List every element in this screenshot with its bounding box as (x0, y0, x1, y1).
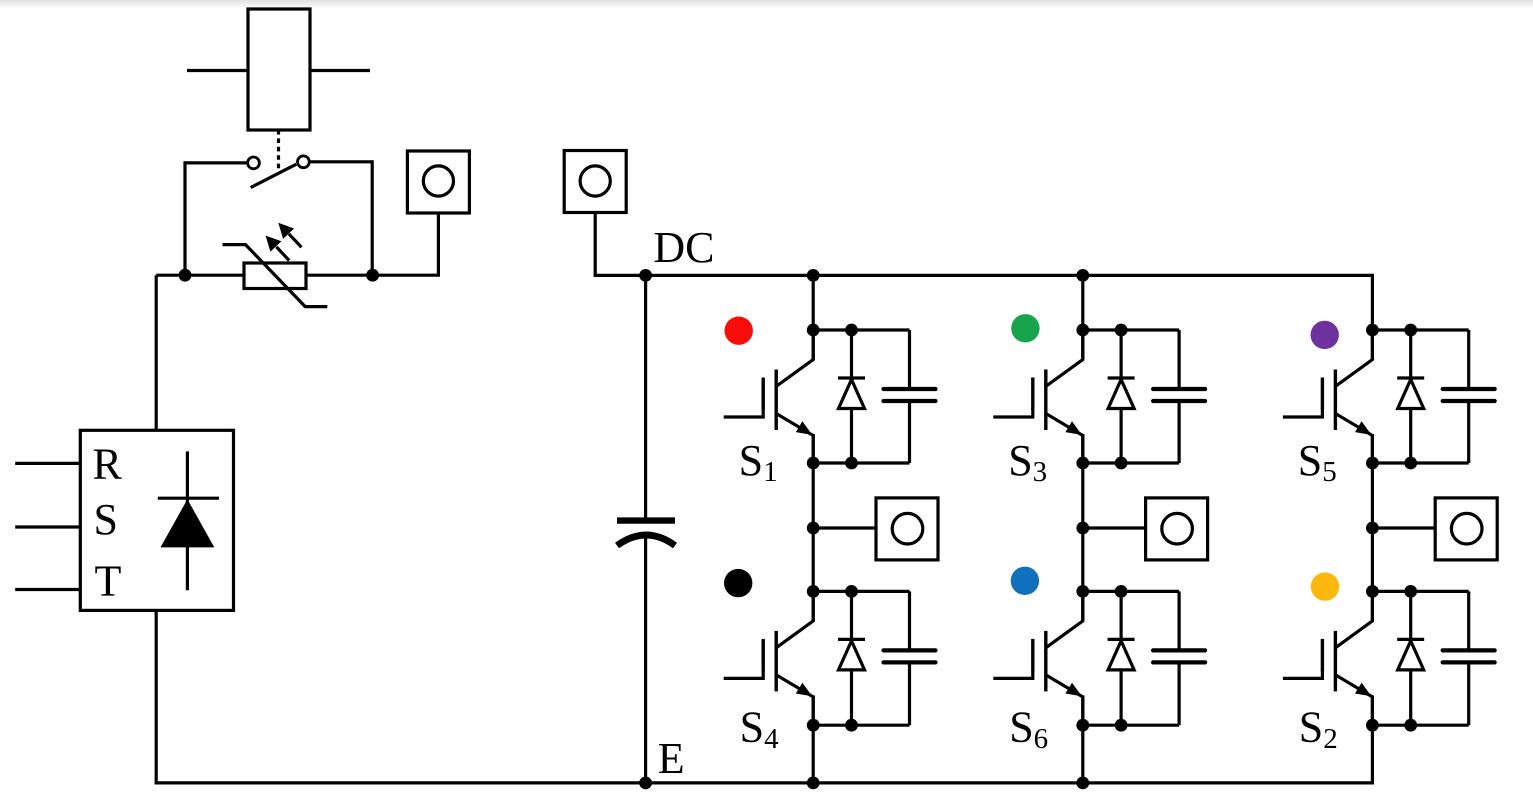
terminal/sensor T2 box (564, 151, 626, 213)
diode D6 triangle (1108, 641, 1134, 670)
snubber cap C5 plates (1443, 387, 1495, 391)
diode D2 triangle (1398, 641, 1424, 670)
junction bottom bus / C-link (639, 777, 652, 790)
free-wheel diode D1 lead (850, 330, 853, 463)
input line R (15, 462, 80, 465)
switch blade (251, 164, 297, 187)
wire terminal T2 to DC bus (594, 213, 597, 278)
IGBT S2 gate bar (1321, 639, 1324, 671)
snubber cap C3 top lead (1177, 330, 1180, 389)
svg-text:R: R (93, 439, 123, 488)
wire left branch down (183, 161, 186, 275)
snubber cap C5 top lead (1467, 330, 1470, 389)
junction DC bus / leg1 (807, 269, 820, 282)
S4 cell top rail (813, 590, 909, 593)
junction S5 cell bottom diode (1404, 457, 1417, 470)
IGBT S3 emitter arrowhead (1065, 421, 1081, 435)
diode D3 cathode bar (1108, 376, 1135, 379)
wire varistor to terminal T1 branch (306, 274, 440, 277)
output terminal U2 box (1146, 498, 1208, 560)
IGBT S1 gate lead (724, 408, 764, 417)
snubber cap C2 top lead (1467, 591, 1470, 650)
junction S3 cell top diode (1115, 324, 1128, 337)
rectifier bridge block (80, 430, 233, 610)
junction phase node leg3 (1366, 522, 1379, 535)
junction S2 cell bottom-left (1366, 719, 1379, 732)
wire rectifier to bottom bus (155, 610, 158, 784)
wire switch-right to right branch (309, 160, 372, 163)
IGBT S2 body bar (1334, 631, 1337, 692)
junction phase node leg1 (807, 522, 820, 535)
junction S1 cell bottom-left (807, 457, 820, 470)
junction S3 cell bottom-left (1076, 457, 1089, 470)
wire right branch down (371, 160, 374, 275)
rectifier diode lead (186, 451, 189, 590)
output terminal U3 box (1435, 498, 1497, 560)
free-wheel diode D5 lead (1409, 330, 1412, 463)
junction S6 cell bottom-left (1076, 719, 1089, 732)
switch contact right (298, 156, 310, 168)
IGBT S6 collector lead (1046, 591, 1083, 647)
junction DC bus / C-link (639, 269, 652, 282)
snubber cap C6 plates (1153, 648, 1205, 652)
DC-link capacitor plates (617, 517, 675, 523)
wire DC bus to capacitor C-link (644, 275, 647, 517)
leg2 middle vertical (1081, 434, 1084, 621)
varistor diagonal strike (223, 245, 328, 307)
output terminal U3 circle (1451, 513, 1482, 544)
yellow marker S2 (1311, 572, 1339, 600)
arrow (lower) head (266, 236, 282, 252)
snubber cap C1 plates (884, 387, 936, 391)
IGBT S4 gate lead (724, 669, 764, 678)
snubber cap C3 bottom lead (1177, 401, 1180, 463)
blue marker S6 (1011, 567, 1039, 595)
IGBT S4 gate bar (762, 639, 765, 671)
input line T (15, 588, 80, 591)
S6 cell bottom rail (1083, 724, 1179, 727)
phase wire leg1 (813, 526, 876, 529)
mechanical link (dashed) coil to contact (277, 130, 280, 172)
junction bottom bus / leg2 (1076, 777, 1089, 790)
red marker S1 (725, 317, 753, 345)
junction S6 cell bottom diode (1115, 719, 1128, 732)
phase wire leg2 (1083, 526, 1146, 529)
DC-link capacitor curved plate (617, 535, 675, 546)
S3 cell top rail (1083, 328, 1179, 331)
wire switch-left to left branch (185, 161, 248, 164)
leg1 middle vertical (812, 434, 815, 621)
IGBT S2 emitter lead (1335, 675, 1372, 725)
IGBT S6 gate bar (1031, 639, 1034, 671)
svg-text:E: E (658, 734, 685, 783)
diode D6 cathode bar (1108, 638, 1135, 641)
leg2 upper vertical (1081, 275, 1084, 359)
snubber cap C4 plates (884, 648, 936, 652)
junction right node (366, 269, 379, 282)
snubber cap C2 bottom lead (1467, 662, 1470, 725)
junction left node (179, 269, 192, 282)
svg-text:S1: S1 (739, 436, 778, 488)
IGBT S1 body bar (775, 370, 778, 431)
terminal/sensor T1 box (407, 151, 469, 213)
diode D1 cathode bar (838, 376, 865, 379)
IGBT S5 gate lead (1283, 408, 1323, 417)
rectifier diode cathode bar (158, 497, 219, 500)
wire up to terminal T1 (437, 213, 440, 275)
arrow (lower) shaft (276, 247, 289, 261)
terminal T2 circle (580, 166, 610, 196)
svg-text:S5: S5 (1298, 436, 1337, 488)
svg-text:S6: S6 (1009, 703, 1048, 755)
IGBT S2 gate lead (1283, 669, 1323, 678)
junction S4 cell bottom-left (807, 719, 820, 732)
leg2 lower vertical (1081, 695, 1084, 783)
arrow (upper) head (278, 223, 294, 239)
S2 cell top rail (1372, 590, 1468, 593)
coil right lead (310, 69, 370, 72)
snubber cap C1 top lead (908, 330, 911, 389)
black marker S4 (724, 569, 752, 597)
junction S2 cell top diode (1404, 585, 1417, 598)
snubber cap C4 bottom lead (908, 662, 911, 725)
diode D4 cathode bar (838, 638, 865, 641)
IGBT S5 emitter lead (1335, 414, 1372, 464)
IGBT S2 collector lead (1336, 591, 1373, 647)
negative bus E (155, 781, 1373, 784)
leg3 middle vertical (1371, 434, 1374, 621)
terminal T1 circle (423, 166, 453, 196)
IGBT S3 gate bar (1031, 378, 1034, 410)
snubber cap C4 top lead (908, 591, 911, 650)
IGBT S5 collector lead (1336, 330, 1373, 386)
IGBT S1 emitter arrowhead (796, 421, 812, 435)
junction S6 cell top-left (1076, 585, 1089, 598)
IGBT S4 collector lead (777, 591, 814, 647)
S1 cell bottom rail (813, 461, 909, 464)
junction S6 cell top diode (1115, 585, 1128, 598)
S1 cell top rail (813, 328, 909, 331)
IGBT S6 emitter lead (1046, 675, 1083, 725)
phase wire leg3 (1372, 526, 1435, 529)
varistor/thermistor RV1 body (244, 263, 306, 289)
IGBT S5 emitter arrowhead (1355, 421, 1371, 435)
S3 cell bottom rail (1083, 461, 1179, 464)
S4 cell bottom rail (813, 724, 909, 727)
IGBT S2 emitter arrowhead (1355, 683, 1371, 697)
contactor coil K1 (248, 9, 310, 130)
IGBT S6 gate lead (993, 669, 1033, 678)
snubber cap C2 plates (1443, 648, 1495, 652)
leg3 lower vertical (1371, 695, 1374, 784)
S2 cell bottom rail (1372, 724, 1468, 727)
junction bottom bus / leg1 (807, 777, 820, 790)
IGBT S1 gate bar (762, 378, 765, 410)
snubber cap C5 bottom lead (1467, 401, 1470, 463)
free-wheel diode D3 lead (1119, 330, 1122, 463)
IGBT S5 body bar (1334, 370, 1337, 431)
wire bottom-left to varistor (156, 274, 244, 277)
IGBT S3 body bar (1044, 370, 1047, 431)
diode D1 triangle (839, 380, 865, 409)
snubber cap C6 top lead (1177, 591, 1180, 650)
IGBT S4 body bar (775, 631, 778, 692)
junction S5 cell bottom-left (1366, 457, 1379, 470)
diode D3 triangle (1108, 380, 1134, 409)
free-wheel diode D2 lead (1409, 591, 1412, 725)
junction DC bus / leg2 (1076, 269, 1089, 282)
junction S4 cell top diode (845, 585, 858, 598)
IGBT S4 emitter arrowhead (796, 683, 812, 697)
svg-text:T: T (95, 556, 122, 605)
leg1 upper vertical (812, 275, 815, 359)
output terminal U1 box (876, 498, 938, 560)
arrow (upper) shaft (289, 234, 302, 247)
svg-text:S4: S4 (740, 703, 779, 755)
junction S4 cell bottom diode (845, 719, 858, 732)
IGBT S6 emitter arrowhead (1065, 683, 1081, 697)
junction phase node leg2 (1076, 522, 1089, 535)
snubber cap C3 plates (1153, 387, 1205, 391)
IGBT S3 emitter lead (1046, 414, 1083, 464)
free-wheel diode D6 lead (1119, 591, 1122, 725)
diode D5 cathode bar (1397, 376, 1424, 379)
wire capacitor C-link to bottom bus (644, 538, 647, 783)
junction S1 cell top diode (845, 324, 858, 337)
svg-text:DC: DC (653, 223, 714, 272)
S6 cell top rail (1083, 590, 1179, 593)
green marker S3 (1011, 314, 1039, 342)
DC+ bus (595, 274, 1372, 277)
junction S3 cell top-left (1076, 324, 1089, 337)
rectifier diode triangle (161, 499, 215, 547)
junction S1 cell top-left (807, 324, 820, 337)
junction S3 cell bottom diode (1115, 457, 1128, 470)
svg-text:S: S (94, 495, 118, 544)
input line S (15, 525, 80, 528)
junction S4 cell top-left (807, 585, 820, 598)
junction S5 cell top-left (1366, 324, 1379, 337)
IGBT S3 collector lead (1046, 330, 1083, 386)
free-wheel diode D4 lead (850, 591, 853, 725)
junction S5 cell top diode (1404, 324, 1417, 337)
IGBT S5 gate bar (1321, 378, 1324, 410)
IGBT S1 emitter lead (776, 414, 813, 464)
diode D2 cathode bar (1397, 638, 1424, 641)
leg1 lower vertical (812, 695, 815, 783)
IGBT S1 collector lead (777, 330, 814, 386)
svg-text:S3: S3 (1008, 436, 1047, 488)
IGBT S4 emitter lead (776, 675, 813, 725)
snubber cap C1 bottom lead (908, 401, 911, 463)
S5 cell bottom rail (1372, 461, 1468, 464)
junction S2 cell bottom diode (1404, 719, 1417, 732)
S5 cell top rail (1372, 328, 1468, 331)
junction S2 cell top-left (1366, 585, 1379, 598)
switch contact left (248, 157, 260, 169)
diode D4 triangle (839, 641, 865, 670)
diode D5 triangle (1398, 380, 1424, 409)
coil left lead (187, 69, 248, 72)
junction S1 cell bottom diode (845, 457, 858, 470)
IGBT S3 gate lead (993, 408, 1033, 417)
output terminal U2 circle (1162, 513, 1193, 544)
IGBT S6 body bar (1044, 631, 1047, 692)
leg3 upper vertical (1371, 274, 1374, 360)
purple marker S5 (1311, 321, 1339, 349)
wire left branch to rectifier (155, 275, 158, 430)
output terminal U1 circle (892, 513, 923, 544)
svg-text:S2: S2 (1299, 703, 1338, 755)
snubber cap C6 bottom lead (1177, 662, 1180, 725)
